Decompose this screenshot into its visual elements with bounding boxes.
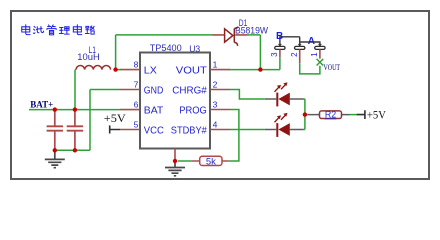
wire L1 right junction to LX pin8 and top rail bbox=[116, 35, 213, 70]
black cap rail with labels B A bbox=[280, 37, 320, 46]
wire L1 left to BAT+ bbox=[75, 70, 76, 110]
wire BAT+ rail bbox=[29, 109, 120, 111]
svg-text:LX: LX bbox=[144, 64, 157, 76]
svg-text:3: 3 bbox=[213, 99, 218, 109]
diode D1 schottky bbox=[225, 29, 233, 42]
svg-text:+5V: +5V bbox=[367, 110, 387, 122]
wire LED join vertical bbox=[303, 99, 305, 130]
wire cap2-cap1 link bbox=[300, 63, 320, 74]
svg-text:3: 3 bbox=[270, 52, 279, 57]
arrowheads on cap stubs bbox=[278, 44, 282, 47]
svg-text:A: A bbox=[308, 36, 315, 47]
IC U3 body bbox=[140, 53, 210, 149]
svg-text:GND: GND bbox=[144, 84, 164, 96]
svg-text:4: 4 bbox=[213, 119, 218, 129]
no-ERC cross on VOUT bbox=[317, 59, 324, 66]
capacitor C1 bbox=[315, 46, 325, 49]
svg-text:2: 2 bbox=[290, 52, 299, 57]
wire R2 to +5V port bbox=[350, 114, 357, 116]
svg-text:5: 5 bbox=[134, 119, 139, 129]
resistor 5k leads bbox=[178, 160, 192, 162]
diode D1 leads bbox=[213, 34, 248, 36]
svg-text:2: 2 bbox=[213, 79, 218, 89]
svg-text:1: 1 bbox=[310, 52, 319, 57]
resistor 5k body bbox=[200, 156, 222, 165]
svg-text:U3: U3 bbox=[189, 44, 200, 55]
svg-text:5k: 5k bbox=[206, 157, 216, 168]
svg-text:VOUT: VOUT bbox=[324, 62, 341, 72]
svg-text:PROG: PROG bbox=[179, 104, 207, 116]
svg-text:6: 6 bbox=[134, 99, 139, 109]
power port +5V (VCC pin5) bbox=[110, 125, 120, 133]
ground (bottom-left) bbox=[45, 150, 65, 167]
sheet border bbox=[11, 11, 429, 179]
capacitor (left) leads bbox=[55, 110, 75, 151]
capacitor C3 (stadium plate) bbox=[275, 46, 285, 49]
IC bottom ground pin bbox=[174, 149, 176, 162]
wire PROG pin3 to 5k bbox=[229, 110, 239, 162]
ground (middle) bbox=[165, 161, 185, 176]
svg-text:R2: R2 bbox=[325, 109, 336, 119]
svg-text:VOUT: VOUT bbox=[176, 64, 208, 76]
svg-text:CHRG#: CHRG# bbox=[172, 84, 207, 96]
svg-text:1: 1 bbox=[213, 59, 218, 69]
junction dots bbox=[53, 67, 307, 163]
wire diode to VOUT node bbox=[247, 35, 260, 70]
wire VOUT row pin1 bbox=[229, 57, 280, 69]
pin stubs left (8,7,6,5) bbox=[120, 70, 140, 130]
inductor L1 bbox=[76, 66, 111, 70]
LED D3 (bottom) bbox=[265, 113, 304, 137]
wire bottom ground rail bbox=[55, 149, 90, 151]
svg-text:10uH: 10uH bbox=[77, 52, 100, 63]
svg-text:7: 7 bbox=[134, 79, 139, 89]
title 电池管理电路 (drawn strokes) bbox=[22, 25, 94, 35]
wire STDBY# pin4 to LED2 bbox=[230, 129, 265, 131]
capacitor plates left pair bbox=[47, 126, 84, 130]
svg-text:8: 8 bbox=[134, 59, 139, 69]
svg-text:BAT: BAT bbox=[144, 104, 164, 116]
svg-text:B: B bbox=[276, 31, 283, 42]
cap red leads bbox=[280, 49, 320, 63]
svg-text:STDBY#: STDBY# bbox=[171, 124, 207, 136]
svg-text:VCC: VCC bbox=[144, 124, 164, 136]
svg-text:BAT+: BAT+ bbox=[30, 101, 53, 111]
wire CHRG# pin2 to LED1 bbox=[230, 90, 265, 100]
power port +5V (right) bbox=[357, 110, 365, 119]
svg-text:+5V: +5V bbox=[104, 113, 127, 125]
svg-text:TP5400: TP5400 bbox=[150, 43, 182, 54]
capacitor C2 bbox=[295, 46, 305, 49]
resistor R2 body bbox=[320, 111, 342, 119]
LED D2 (top) bbox=[265, 82, 304, 106]
pin stubs right (1,2,3,4) bbox=[210, 70, 230, 130]
wire GND pin7 to ground rail bbox=[90, 90, 120, 151]
resistor R2 leads bbox=[307, 114, 350, 116]
